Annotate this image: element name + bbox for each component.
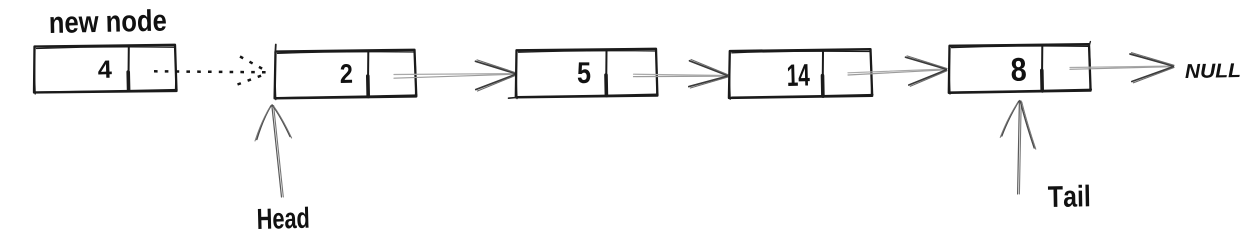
node N2 box (value 5) — [516, 49, 658, 99]
node N4 value 8 — [1011, 57, 1026, 81]
node N1 divider — [367, 52, 370, 97]
node N0 box (new node, value 4) — [34, 45, 177, 94]
node N1 value 2 — [340, 64, 352, 83]
node N0 value 4 — [98, 60, 112, 78]
label: Head — [258, 207, 309, 230]
node N4 divider — [1041, 46, 1044, 91]
Tail pointer arrow (points up to node 8) — [1000, 101, 1036, 195]
node N2 corner overshoot tick — [509, 97, 517, 100]
arrow from node 2 pointer to node 5 — [394, 60, 517, 91]
node N1 corner overshoot tick — [274, 45, 277, 54]
arrow from node 5 pointer to node 14 — [634, 60, 729, 89]
node N4 box (value 8) — [949, 44, 1092, 94]
node N4 corner overshoot tick — [1089, 42, 1090, 46]
label: NULL — [1185, 63, 1240, 78]
label: new node — [50, 9, 166, 33]
node N3 box (value 14) — [729, 49, 873, 99]
dotted next-pointer arrow from new node to node 2 — [154, 57, 269, 85]
node N1 box (value 2) — [275, 50, 417, 100]
node N2 divider — [605, 51, 608, 96]
node N3 divider — [822, 52, 825, 97]
arrow from node 8 pointer to NULL — [1070, 53, 1174, 83]
node N2 value 5 — [578, 62, 591, 83]
Head pointer arrow (points up to node 2) — [255, 105, 292, 197]
node N0 divider — [127, 47, 130, 91]
arrow from node 14 pointer to node 8 — [848, 56, 947, 86]
label: Tail — [1048, 185, 1089, 208]
node N3 value 14 — [788, 64, 810, 86]
